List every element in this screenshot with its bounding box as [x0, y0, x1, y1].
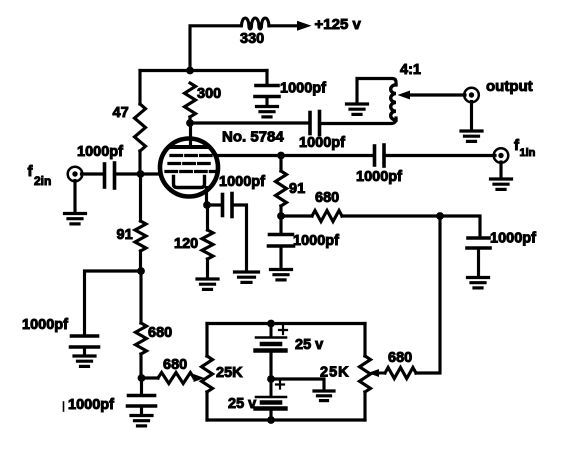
battery box top rail — [207, 322, 365, 325]
svg-text:25 v: 25 v — [295, 337, 323, 353]
resistor 680 left column — [136, 271, 147, 354]
connector f2in — [68, 167, 83, 182]
wire 330 to arrow — [269, 24, 298, 27]
wire resistor 47 to grid junction — [138, 151, 141, 174]
value label 4:1 — [400, 62, 421, 78]
transformer tap arrow — [398, 91, 411, 100]
ground cathode cap — [235, 272, 259, 282]
value label 1000pf left bypass — [22, 317, 68, 333]
value label 300 — [197, 86, 221, 102]
capacitor 1000pf right — [467, 238, 490, 277]
wire tap to output connector — [408, 93, 465, 96]
wire f1 line from tube — [216, 154, 374, 157]
cathode junction — [203, 201, 211, 209]
ground screen bypass — [257, 107, 278, 117]
value label 25K right — [320, 365, 350, 381]
svg-text:680: 680 — [163, 357, 187, 373]
wire 91 right to mixer node — [279, 206, 282, 216]
resistor 680 mid — [312, 211, 342, 222]
wire junction to left bypass cap — [85, 271, 142, 334]
svg-text:91: 91 — [117, 227, 133, 243]
capacitor 1000pf screen bypass — [255, 71, 279, 106]
tube No.5784 envelope — [160, 139, 218, 197]
tube grid 2 — [169, 162, 212, 165]
capacitor 1000pf plate coupling — [310, 112, 320, 135]
ground f2in — [65, 214, 86, 224]
svg-text:1000pf: 1000pf — [68, 397, 114, 413]
wire down to resistor 47 — [138, 71, 141, 105]
svg-text:1000pf: 1000pf — [490, 231, 536, 247]
svg-text:1000pf: 1000pf — [293, 233, 339, 249]
ground battery mid — [314, 391, 334, 401]
value label 25K left — [216, 365, 243, 381]
junction screen node — [186, 67, 194, 75]
svg-text:25 v: 25 v — [228, 396, 256, 412]
left pot wiper arrow — [194, 374, 205, 382]
svg-text:4:1: 4:1 — [400, 62, 421, 78]
tube cathode lead — [205, 188, 208, 206]
value label 47 — [113, 105, 129, 121]
capacitor 1000pf cathode bypass — [223, 194, 233, 217]
capacitor 1000pf f1 input coupling — [375, 145, 385, 166]
value label 1000pf coupling — [299, 135, 345, 151]
connector f1in — [494, 148, 509, 163]
ground right cap — [468, 278, 489, 288]
value label 680 bottom right — [388, 350, 412, 366]
junction battery top — [267, 320, 275, 328]
value label 91 left — [117, 227, 133, 243]
svg-text:330: 330 — [240, 31, 264, 47]
value label 1000pf cathode — [219, 174, 265, 190]
right pot wiper arrow — [368, 369, 385, 377]
wire battery mid to ground — [271, 379, 324, 390]
wire resistor 300 to plate node — [188, 117, 191, 123]
resistor 680 bottom right — [385, 368, 416, 379]
svg-text:25K: 25K — [216, 365, 243, 381]
capacitor 1000pf bottom left — [128, 378, 156, 415]
capacitor 1000pf left bypass — [71, 336, 99, 355]
svg-text:1000pf: 1000pf — [356, 169, 402, 185]
battery box bottom rail — [207, 418, 365, 421]
capacitor 1000pf mixer bypass — [269, 216, 294, 269]
value label 25v upper — [295, 337, 323, 353]
svg-text:680: 680 — [148, 325, 172, 341]
wire 120 to ground — [206, 259, 209, 278]
wire f1in connector to ground — [499, 162, 502, 178]
svg-text:1000pf: 1000pf — [299, 135, 345, 151]
wire cathode to bypass cap — [207, 203, 222, 206]
tube cathode — [174, 177, 205, 188]
value label 25v lower — [228, 396, 256, 412]
wire 680 mid to right cap — [342, 216, 480, 236]
ground transformer — [347, 104, 368, 114]
resistor 300 — [185, 83, 196, 117]
potentiometer 25K left — [202, 324, 213, 421]
resistor 330 — [242, 18, 269, 29]
resistor 91 grid leak — [135, 174, 146, 251]
ground f1in — [491, 179, 512, 189]
wire 91 to junction — [139, 251, 142, 271]
value label 680 left column — [148, 325, 172, 341]
potentiometer 25K right — [360, 324, 371, 421]
svg-text:1000pf: 1000pf — [280, 81, 326, 97]
polarity plus upper — [279, 326, 287, 334]
connector output — [464, 88, 479, 103]
battery 25v lower — [256, 379, 287, 420]
value label 1000pf bottom left — [64, 397, 115, 413]
svg-text:680: 680 — [315, 190, 339, 206]
value label 1000pf f1 input — [356, 169, 402, 185]
ground output — [461, 131, 482, 141]
wire right feed down — [416, 216, 440, 373]
value label 1000pf mixer bypass — [293, 233, 339, 249]
svg-text:47: 47 — [113, 105, 129, 121]
battery 25v upper — [256, 324, 287, 380]
junction mixer bias node — [277, 212, 285, 220]
wire B+ rail top — [190, 26, 240, 71]
capacitor 1000pf f2 input coupling — [105, 163, 115, 188]
net label f1in — [514, 137, 536, 159]
svg-text:1000pf: 1000pf — [77, 144, 123, 160]
svg-text:1000pf: 1000pf — [219, 174, 265, 190]
resistor 680 to left pot — [142, 373, 195, 384]
junction right feed node — [436, 212, 444, 220]
value label 1000pf f2 input — [77, 144, 123, 160]
ground mixer bypass — [271, 270, 292, 280]
svg-text:No. 5784: No. 5784 — [222, 129, 284, 146]
junction grid 1 node — [137, 170, 145, 178]
junction plate node — [186, 119, 194, 127]
wire cap to grid junction — [115, 172, 161, 175]
polarity plus lower — [276, 381, 284, 389]
wire output connector to ground — [470, 102, 473, 131]
wire f2in connector to ground — [73, 181, 76, 214]
resistor 91 right — [276, 156, 287, 207]
resistor 47 — [135, 104, 146, 151]
ground left bypass — [74, 356, 95, 366]
net label output — [486, 78, 533, 95]
svg-text:1in: 1in — [520, 147, 536, 159]
svg-text:300: 300 — [197, 86, 221, 102]
tube plate lead — [189, 123, 192, 146]
node +125 v supply arrow — [297, 21, 312, 31]
junction battery bottom — [267, 416, 275, 424]
wire f1 cap to connector — [384, 154, 495, 157]
value label 330 — [240, 31, 264, 47]
transformer 4:1 winding — [391, 85, 396, 120]
wire screen node horizontal — [140, 69, 267, 72]
wire plate node to coupling cap — [190, 121, 309, 124]
tube plate — [172, 145, 209, 149]
svg-text:120: 120 — [174, 236, 198, 252]
value label 1000pf right — [490, 231, 536, 247]
value label 680 mid — [315, 190, 339, 206]
svg-text:+125 v: +125 v — [315, 16, 362, 33]
svg-text:1000pf: 1000pf — [22, 317, 68, 333]
svg-text:680: 680 — [388, 350, 412, 366]
tube label No. 5784 — [222, 129, 284, 146]
value label 120 — [174, 236, 198, 252]
junction bottom left node — [138, 374, 146, 382]
wire cathode cap to ground — [232, 205, 247, 271]
junction left bias node — [137, 267, 145, 275]
wire coupling cap to transformer — [320, 118, 397, 124]
wire transformer top to ground — [357, 79, 396, 104]
wire mixer node to 680 — [281, 214, 312, 217]
tube grid 3 (pin row) — [171, 154, 211, 157]
value label 680 lower left — [163, 357, 187, 373]
wire f2in connector to cap — [82, 172, 105, 175]
ground bottom left — [131, 416, 152, 426]
svg-text:f: f — [28, 163, 34, 180]
ground 120 — [197, 279, 218, 289]
junction f1 node — [277, 152, 285, 160]
tube grid 1 — [166, 170, 214, 173]
net label f2in — [28, 163, 52, 188]
value label 91 right — [289, 181, 305, 197]
svg-text:output: output — [486, 78, 533, 95]
value label 1000pf screen — [280, 81, 326, 97]
svg-text:2in: 2in — [34, 174, 51, 188]
junction battery mid — [267, 375, 275, 383]
svg-text:91: 91 — [289, 181, 305, 197]
resistor 120 — [202, 205, 213, 259]
wire 680 to bottom junction — [139, 354, 142, 378]
net label +125 v — [315, 16, 362, 33]
